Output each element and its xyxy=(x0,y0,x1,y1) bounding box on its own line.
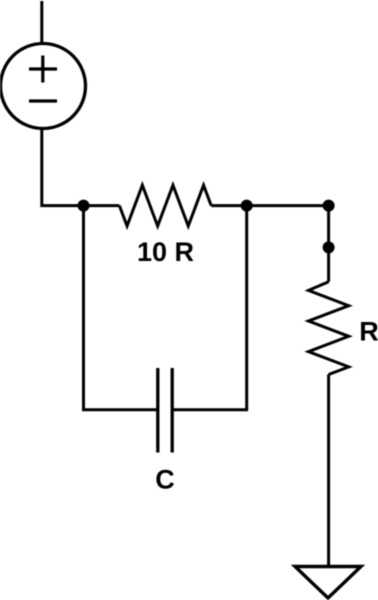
capacitor C1 xyxy=(158,368,172,453)
resistor R1 xyxy=(119,185,211,226)
wire node A down and right to capacitor C1 xyxy=(84,206,158,410)
wire top lead of V1 xyxy=(40,1,43,44)
wire node A to resistor R1 xyxy=(84,204,120,207)
wire node C to node D xyxy=(327,206,330,248)
svg-text:R: R xyxy=(359,316,378,346)
wire R2 to ground xyxy=(327,375,330,567)
junction dot node D xyxy=(323,241,335,253)
wire node B to node C xyxy=(247,204,329,207)
wire capacitor C1 to node B xyxy=(172,206,247,410)
svg-text:10 R: 10 R xyxy=(137,237,194,267)
ground xyxy=(295,567,361,599)
junction dot node C xyxy=(323,200,335,212)
wire R1 to node B xyxy=(211,204,247,207)
wire V1 bottom to node A xyxy=(42,129,84,206)
wire node D to resistor R2 xyxy=(327,247,330,281)
svg-text:C: C xyxy=(155,465,175,495)
junction dot node B xyxy=(241,200,253,212)
junction dot node A xyxy=(78,200,90,212)
resistor R2 xyxy=(309,282,349,375)
voltage source V1 xyxy=(1,44,86,129)
